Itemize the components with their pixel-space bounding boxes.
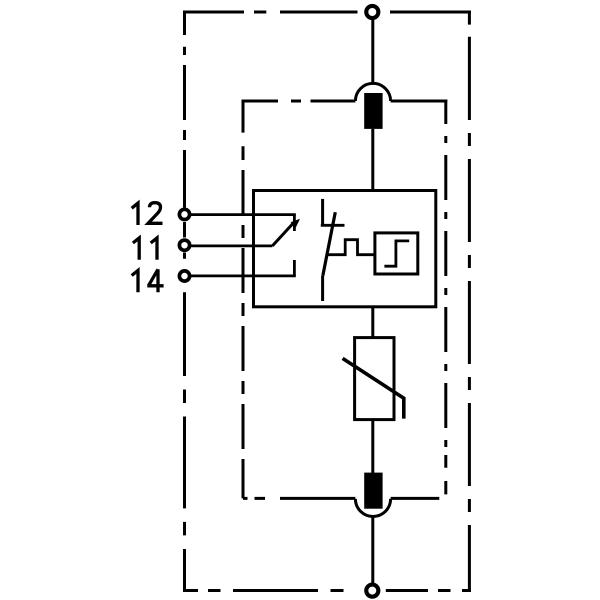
contact stub 12: [293, 215, 296, 231]
signal step waveform: [384, 241, 409, 266]
wire terminal 11: [191, 244, 272, 247]
varistor body: [355, 338, 394, 420]
thermal disconnector contact tick: [321, 224, 345, 227]
top plug-in contact bar (filled): [364, 93, 382, 129]
label 12: [132, 203, 163, 225]
wire terminal 14: [191, 274, 296, 277]
inner plug-in module border, right edge: [444, 100, 447, 495]
thermal disconnector top lead: [321, 199, 324, 226]
wire from top plug contact to switch box: [371, 129, 374, 192]
wire terminal 12: [191, 213, 296, 216]
changeover contact blade from 11: [272, 222, 294, 246]
wire from switch box to varistor: [371, 307, 374, 338]
remote signalling box: [375, 233, 418, 274]
wire from bottom plug contact to bottom terminal circle: [371, 517, 374, 585]
top terminal circle: [366, 6, 378, 18]
bottom terminal circle: [366, 585, 378, 597]
switching device box: [254, 191, 436, 307]
wire from varistor to bottom plug contact: [371, 420, 374, 473]
inner plug-in module border (dash-dot), top edge with gap for terminal arc: [243, 100, 447, 103]
terminal circle 12: [179, 209, 189, 219]
outer device enclosure border, bottom edge: [184, 589, 471, 592]
thermal disconnector blade: [323, 212, 336, 276]
label 11: [133, 238, 157, 260]
outer device enclosure border, right edge: [468, 11, 471, 593]
thermal disconnector bottom lead: [321, 276, 324, 301]
inner plug-in module border, left edge: [242, 100, 245, 499]
terminal circle 11: [179, 240, 189, 250]
inner plug-in module border, bottom edge with gap for terminal arc: [243, 497, 439, 500]
bottom plug-in contact arc: [355, 499, 390, 517]
label 14: [132, 269, 164, 292]
bottom plug-in contact bar (filled): [364, 473, 382, 509]
changeover contact blade arrowhead: [291, 219, 300, 228]
terminal circle 14: [179, 271, 189, 281]
contact stub 14: [293, 260, 296, 276]
wire from top terminal circle down to top plug contact: [371, 20, 374, 85]
varistor diagonal stroke with bent tail: [343, 358, 404, 418]
outer device enclosure border, left edge: [183, 11, 186, 593]
mechanical linkage with notch: [327, 240, 375, 255]
top plug-in contact arc: [355, 83, 390, 101]
outer device enclosure border (dash-dot), top edge: [184, 11, 471, 14]
